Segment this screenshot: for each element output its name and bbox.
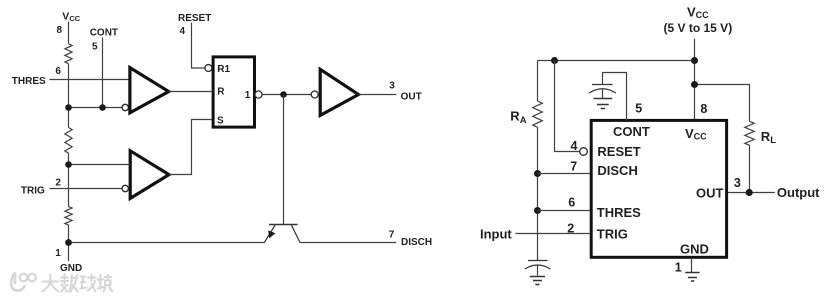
wire: RL branch from Vcc node: [695, 85, 750, 122]
node A junction dot on CONT: [99, 104, 106, 111]
svg-text:3: 3: [734, 176, 741, 190]
latch U2 (SR flip-flop box): [213, 57, 254, 127]
pin 6 label: [55, 66, 61, 77]
wire: OUT pin 3 to Output: [728, 192, 775, 194]
TRIG label: [21, 186, 45, 197]
svg-text:TRIG: TRIG: [597, 227, 628, 242]
junction dot: latch output node: [280, 91, 287, 98]
pin 5 label: [635, 102, 642, 116]
THRES label: [12, 76, 46, 87]
wire: top supply rail: [538, 60, 695, 62]
watermark logo swoosh: [11, 274, 24, 291]
svg-text:4: 4: [571, 139, 578, 153]
svg-text:GND: GND: [60, 263, 82, 274]
wire: Vcc down to rail and pin 8: [694, 39, 696, 121]
svg-text:TRIG: TRIG: [21, 186, 45, 197]
OUT pin label: [696, 185, 724, 200]
wire: latch output to buffer input: [262, 94, 311, 96]
wire: buffer output to OUT pin 3: [359, 94, 397, 96]
supply range label (5 V to 15 V): [664, 21, 733, 35]
ground symbol (C2): [594, 99, 613, 109]
RIGHT DIAGRAM: [480, 5, 820, 285]
watermark char 1: [43, 275, 59, 292]
svg-text:RA: RA: [510, 109, 526, 126]
Vcc supply label: [687, 5, 709, 21]
svg-text:8: 8: [57, 25, 63, 36]
svg-text:VCC: VCC: [687, 5, 709, 21]
svg-text:DISCH: DISCH: [597, 163, 637, 178]
GND label: [60, 263, 82, 274]
svg-text:THRES: THRES: [12, 76, 46, 87]
wire: C1 to ground: [537, 266, 539, 276]
wire: comparator U1 output to latch R input: [169, 91, 212, 93]
GND pin label: [680, 242, 709, 257]
wire: Input to TRIG pin 2: [516, 233, 591, 235]
pin 3 label: [734, 176, 741, 190]
wire: GND rail from pin 1 to Q1 emitter: [69, 242, 265, 244]
pin 4 label: [571, 139, 578, 153]
wire: GND pin 1 stub: [691, 259, 693, 273]
resistor R3 (bottom of divider): [65, 207, 72, 226]
watermark logo rings 00: [20, 274, 28, 282]
wire: R2 to R3: [68, 153, 70, 206]
wire: RL down to output node: [749, 145, 751, 192]
pin 7 label: [570, 159, 577, 173]
junction dot: output node: [746, 189, 753, 196]
svg-text:3: 3: [389, 81, 395, 92]
ground symbol (C1): [530, 277, 545, 285]
wire: R1 to R2 (crosses THRES wire): [68, 64, 70, 128]
wire: Vcc down to resistor R1: [68, 22, 70, 44]
svg-text:S: S: [217, 116, 224, 127]
svg-text:Output: Output: [777, 185, 820, 200]
OUT label: [401, 92, 422, 103]
wire: Q1 collector to DISCH pin 7: [300, 242, 397, 244]
wire: RESET pin 4 to latch R1 input: [192, 23, 205, 68]
svg-text:1: 1: [55, 248, 61, 259]
svg-text:7: 7: [570, 159, 577, 173]
wire: comparator U3 output to latch S input: [169, 120, 212, 175]
capacitor C1 curved plate: [525, 265, 551, 269]
pin 1 label: [55, 248, 61, 259]
svg-text:6: 6: [55, 66, 61, 77]
inversion bubble: buffer input: [311, 91, 318, 98]
pin 6 label: [568, 196, 575, 210]
pin 4 label: [180, 26, 186, 37]
latch S pin label: [217, 116, 224, 127]
latch output pin 1 label: [245, 90, 251, 101]
wire: C2 to ground: [602, 90, 604, 99]
RA label: [510, 109, 526, 126]
resistor RA: [533, 101, 543, 127]
THRES pin label: [597, 205, 641, 220]
transistor Q1 emitter arrow: [268, 230, 275, 238]
RESET label: [178, 13, 211, 24]
node B junction dot on divider: [65, 161, 72, 168]
Input label: [480, 227, 512, 242]
watermark char 3: [80, 275, 96, 292]
svg-text:(5 V to 15 V): (5 V to 15 V): [664, 21, 733, 35]
junction dot: GND pin 1: [65, 239, 72, 246]
CONT label: [90, 28, 118, 39]
ground symbol (IC GND): [685, 273, 699, 282]
node A junction dot on divider: [65, 104, 72, 111]
Vcc label (left, pin 8): [62, 10, 80, 23]
svg-text:CONT: CONT: [90, 28, 118, 39]
latch R1 pin label: [217, 64, 230, 75]
op-amp U1 (threshold comparator): [130, 68, 169, 113]
op-amp U3 (trigger comparator): [130, 151, 169, 199]
DISCH pin label: [597, 163, 637, 178]
resistor R2 (middle of divider): [65, 128, 72, 154]
pin 2 label: [567, 222, 574, 236]
pin 1 label: [675, 261, 682, 275]
pin 5 label: [92, 42, 98, 53]
transistor Q1 collector lead: [292, 225, 301, 242]
svg-text:5: 5: [635, 102, 642, 116]
wire: RA down to timing node and capacitor C1: [537, 127, 539, 260]
inversion bubble: latch output: [255, 91, 262, 98]
inversion bubble: latch R1 input: [205, 65, 212, 72]
wire: THRES pin 6 into comparator U1 + input: [50, 79, 131, 81]
resistor RL: [745, 121, 754, 145]
junction dot: THRES node: [534, 207, 541, 214]
svg-text:VCC: VCC: [62, 10, 80, 23]
Output label: [777, 185, 820, 200]
pin 2 label: [55, 177, 61, 188]
wire: RESET drop from rail: [555, 61, 580, 152]
svg-text:8: 8: [700, 102, 707, 116]
svg-text:1: 1: [675, 261, 682, 275]
svg-text:6: 6: [568, 196, 575, 210]
capacitor C2 curved plate: [589, 89, 616, 93]
wire: TRIG pin 2 into comparator U3 - input: [50, 188, 122, 190]
IC U5 (555 timer box): [591, 120, 726, 257]
svg-text:RESET: RESET: [597, 144, 640, 159]
pin 3 label: [389, 81, 395, 92]
wire: CONT pin 5 to bypass capacitor C2: [603, 73, 627, 121]
wire: R3 to GND pin 1: [68, 225, 70, 261]
junction dot: rail at RESET drop: [551, 57, 558, 64]
wire: node A horizontal (divider node to comparator U1 - input): [69, 107, 122, 109]
svg-text:1: 1: [245, 90, 251, 101]
inversion bubble: RESET pin 4: [580, 148, 588, 156]
wire: node B horizontal (divider node to comparator U3 + input): [69, 164, 131, 166]
svg-text:DISCH: DISCH: [401, 237, 432, 248]
svg-text:GND: GND: [680, 242, 709, 257]
svg-text:RESET: RESET: [178, 13, 211, 24]
CONT pin label: [613, 124, 650, 139]
wire: CONT pin 5 vertical: [102, 38, 104, 108]
watermark: [11, 274, 112, 292]
wire: rail corner down to resistor RA: [537, 61, 539, 102]
RESET pin label: [597, 144, 640, 159]
svg-text:7: 7: [389, 229, 395, 240]
inversion bubble: comparator U1 - input: [122, 104, 128, 110]
svg-text:R1: R1: [217, 64, 230, 75]
resistor R1 (top of divider): [65, 44, 72, 64]
svg-text:Input: Input: [480, 227, 512, 242]
svg-text:OUT: OUT: [401, 92, 422, 103]
RL label: [761, 129, 776, 146]
pin 7 label: [389, 229, 395, 240]
svg-text:R: R: [217, 86, 225, 97]
buffer U4 (output stage): [320, 69, 358, 115]
transistor Q1 emitter lead: [264, 225, 275, 242]
svg-text:THRES: THRES: [597, 205, 641, 220]
wire: DISCH pin 7: [538, 173, 591, 175]
wire: THRES pin 6: [538, 210, 591, 212]
inversion bubble: comparator U3 - input: [122, 185, 128, 191]
latch R pin label: [217, 86, 225, 97]
VCC pin label: [685, 126, 707, 142]
LEFT DIAGRAM: [12, 10, 432, 273]
transistor Q1 base bar: [269, 224, 298, 226]
watermark char 2: [61, 274, 78, 292]
wire: latch output node down to transistor Q1 base: [283, 95, 285, 225]
svg-text:4: 4: [180, 26, 186, 37]
junction dot: DISCH node: [534, 170, 541, 177]
pin 8 label: [57, 25, 63, 36]
svg-text:RL: RL: [761, 129, 776, 146]
pin 8 label: [700, 102, 707, 116]
capacitor C2 top plate: [592, 84, 613, 86]
svg-text:2: 2: [55, 177, 61, 188]
DISCH label: [401, 237, 432, 248]
svg-text:5: 5: [92, 42, 98, 53]
junction dot: Vcc branch to RL: [691, 81, 698, 88]
capacitor C1 top plate: [528, 260, 548, 262]
junction dot: rail at Vcc pin 8: [691, 57, 698, 64]
watermark char 4: [98, 275, 113, 292]
svg-text:OUT: OUT: [696, 185, 724, 200]
TRIG pin label: [597, 227, 628, 242]
svg-text:CONT: CONT: [613, 124, 650, 139]
